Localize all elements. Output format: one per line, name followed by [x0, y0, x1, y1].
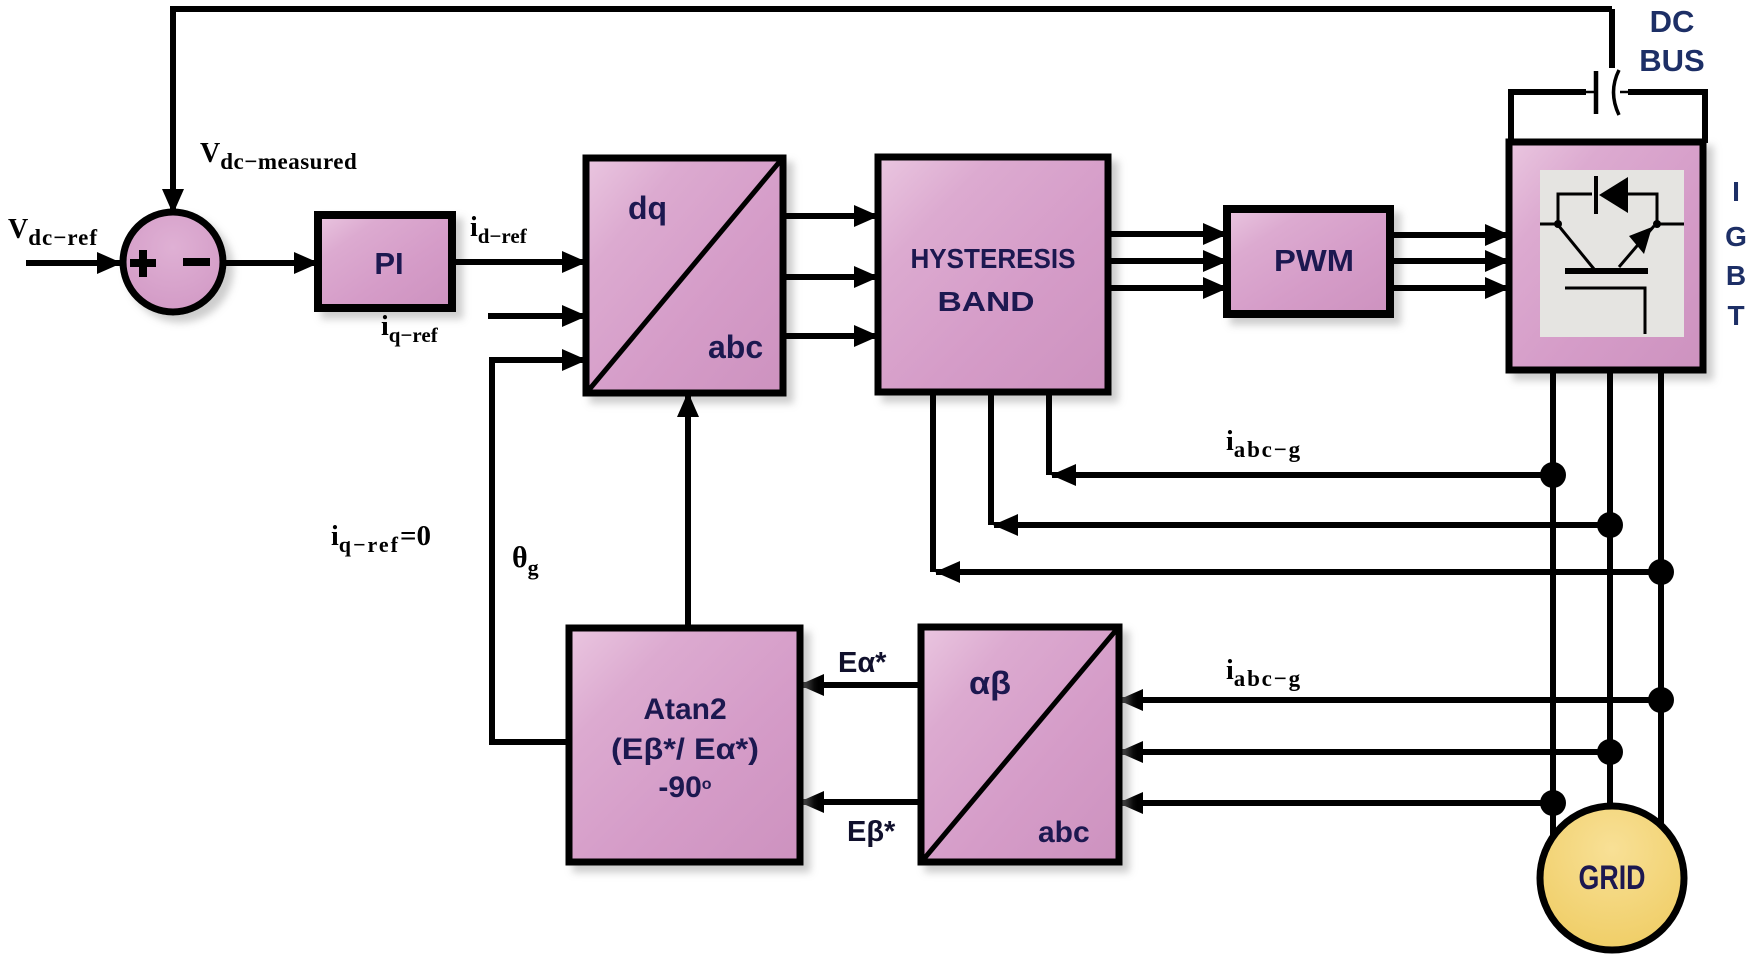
svg-text:abc: abc	[1038, 816, 1090, 849]
collector rail with stubs	[1540, 223, 1684, 226]
wire igbt phase A down	[1550, 370, 1556, 838]
diode branch left	[1558, 194, 1592, 224]
wire feedback current a	[1052, 472, 1553, 478]
junction dot collector left	[1554, 220, 1562, 228]
IGBT block	[1509, 142, 1703, 370]
wire igbt phase C down	[1658, 370, 1664, 825]
wire hysteresis to pwm a	[1108, 231, 1227, 237]
minus sign	[183, 258, 210, 266]
svg-text:T: T	[1727, 300, 1744, 331]
summing junction	[123, 212, 223, 312]
svg-text:(Eβ*/ Eα*): (Eβ*/ Eα*)	[611, 733, 759, 766]
transistor base bar	[1565, 268, 1648, 274]
IGBT inner panel	[1540, 170, 1684, 337]
capacitor plate right curved	[1614, 70, 1620, 115]
wire Atan2 to dq bottom	[685, 393, 691, 628]
wire hysteresis feedback vertical c	[1046, 392, 1052, 475]
PI block	[318, 215, 452, 308]
wire dq to hysteresis b	[783, 274, 878, 280]
wire grid current to ab a	[1119, 697, 1661, 703]
svg-text:DC: DC	[1650, 4, 1695, 39]
svg-text:iabc−g: iabc−g	[1226, 426, 1302, 462]
junction dot collector right	[1653, 220, 1661, 228]
wire pwm to igbt c	[1390, 285, 1509, 291]
svg-text:BUS: BUS	[1639, 43, 1704, 78]
junction dot D	[1648, 687, 1674, 713]
wire pwm to igbt b	[1390, 258, 1509, 264]
svg-text:BAND: BAND	[938, 286, 1035, 317]
svg-text:dq: dq	[628, 190, 667, 226]
svg-text:PI: PI	[374, 246, 403, 281]
diode triangle	[1599, 177, 1628, 213]
wire summing junction to PI	[222, 260, 318, 266]
svg-text:iabc−g: iabc−g	[1226, 655, 1302, 691]
svg-text:Vdc−ref: Vdc−ref	[8, 214, 98, 250]
capacitor plate left	[1594, 71, 1599, 114]
wire feedback current c	[936, 569, 1661, 575]
svg-text:PWM: PWM	[1274, 243, 1354, 278]
emitter arrowhead	[1629, 227, 1652, 254]
svg-text:Vdc−measured: Vdc−measured	[200, 138, 357, 174]
svg-text:θg: θg	[512, 541, 539, 580]
wire igbt phase B down	[1607, 370, 1613, 812]
transistor emitter slant	[1619, 226, 1654, 267]
wire dq to hysteresis a	[783, 213, 878, 219]
svg-text:G: G	[1725, 221, 1747, 252]
wire feedback drop to summing junction	[170, 6, 176, 213]
svg-text:id−ref: id−ref	[470, 212, 528, 248]
dq-abc diagonal	[588, 160, 781, 391]
svg-text:abc: abc	[708, 329, 763, 365]
junction dot B	[1597, 512, 1623, 538]
svg-text:GRID: GRID	[1579, 859, 1646, 897]
junction dot E	[1597, 739, 1623, 765]
wire grid current to ab b	[1119, 749, 1610, 755]
junction dot A	[1540, 462, 1566, 488]
svg-text:αβ: αβ	[969, 665, 1011, 701]
wire hysteresis to pwm b	[1108, 258, 1227, 264]
dq-abc transform block	[586, 158, 783, 393]
IGBT symbol wires	[1540, 194, 1684, 334]
alpha-beta diagonal	[923, 629, 1117, 860]
junction dot C	[1648, 559, 1674, 585]
svg-text:iq−ref: iq−ref	[381, 311, 439, 347]
svg-text:Eβ*: Eβ*	[847, 816, 896, 848]
svg-text:Eα*: Eα*	[838, 647, 887, 679]
svg-text:HYSTERESIS: HYSTERESIS	[911, 243, 1076, 274]
wire dq to hysteresis c	[783, 333, 878, 339]
wire E-beta to atan2	[800, 799, 921, 805]
diode branch right	[1626, 194, 1657, 224]
wire hysteresis to pwm c	[1108, 285, 1227, 291]
diode cathode bar	[1594, 176, 1598, 214]
svg-text:Atan2: Atan2	[643, 693, 726, 726]
DC bus right vertical	[1702, 89, 1708, 143]
wire PI to dq	[452, 259, 586, 265]
wire theta-g from Atan2 to dq	[492, 360, 586, 742]
gate L wire	[1565, 288, 1645, 334]
GRID circle	[1540, 806, 1684, 950]
wire hysteresis feedback vertical a	[930, 392, 936, 572]
wire feedback current b	[994, 522, 1610, 528]
wire hysteresis feedback vertical b	[988, 392, 994, 525]
wire iq-ref arrow	[488, 313, 586, 319]
DC bus right rail	[1620, 91, 1628, 94]
wire top feedback bus	[173, 6, 1612, 12]
svg-text:I: I	[1732, 176, 1740, 207]
DC bus left vertical	[1508, 89, 1514, 143]
Atan2 block	[569, 628, 800, 862]
transistor collector slant	[1558, 225, 1594, 269]
svg-text:iq−ref=0: iq−ref=0	[331, 520, 431, 557]
wire E-alpha to atan2	[800, 682, 921, 688]
wire pwm to igbt a	[1390, 232, 1509, 238]
wire grid current to ab c	[1119, 800, 1553, 806]
alpha-beta block	[921, 627, 1119, 862]
junction dot F	[1540, 790, 1566, 816]
PWM block	[1227, 209, 1390, 314]
DC bus left rail	[1511, 89, 1586, 95]
wire DC bus drop to capacitor	[1609, 9, 1615, 68]
svg-text:B: B	[1726, 260, 1746, 291]
wire input Vdc-ref arrow	[26, 260, 121, 266]
hysteresis band block	[878, 157, 1108, 392]
plus sign	[130, 250, 156, 277]
